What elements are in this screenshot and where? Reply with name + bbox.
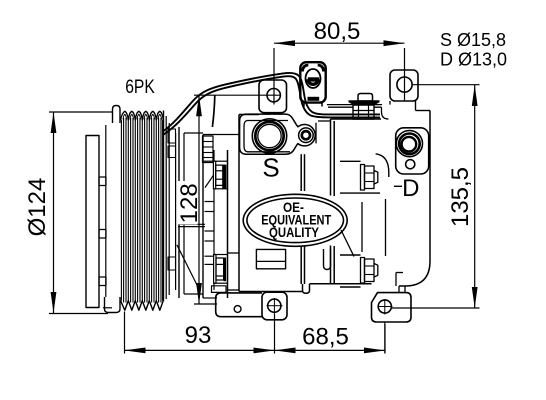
hex bolt Q3 (rear upper)	[361, 165, 378, 191]
pulley drum bottom-left tab	[105, 297, 121, 313]
S port circles	[252, 119, 286, 153]
top-right mounting ear	[390, 70, 418, 101]
main block left edge	[238, 115, 240, 292]
dimension 80,5 top	[274, 18, 405, 105]
D port plate	[396, 128, 429, 174]
lower boss lines	[228, 252, 240, 254]
bracket lower edge double line	[327, 104, 382, 106]
rib ladder top	[203, 136, 214, 163]
svg-text:93: 93	[185, 322, 212, 349]
armature tab 3	[99, 277, 106, 286]
hex bolt Q1 (front upper)	[213, 161, 227, 189]
bottom-left mounting ear	[262, 292, 287, 320]
svg-text:S: S	[262, 153, 279, 183]
top edge right of lug	[318, 120, 331, 122]
S port boss outline	[240, 114, 316, 154]
rear top edge	[331, 118, 382, 120]
pulley rib bottom teeth	[121, 301, 164, 311]
flange tab lower	[168, 257, 176, 270]
front housing face lines	[178, 127, 180, 298]
wire harness	[164, 73, 381, 135]
body top edge left of ear	[239, 114, 259, 116]
label plate	[256, 249, 285, 268]
svg-text:135,5: 135,5	[447, 167, 474, 227]
dimension 68,5 bottom center	[275, 315, 386, 354]
pulley armature plate	[86, 136, 99, 308]
svg-text:D: D	[402, 175, 419, 202]
relief valve	[358, 94, 373, 102]
svg-text:6PK: 6PK	[125, 77, 155, 98]
svg-text:QUALITY: QUALITY	[269, 225, 319, 240]
badge OE-EQUIVALENT QUALITY	[243, 194, 347, 246]
hex bolt Q2 (front lower)	[214, 255, 228, 284]
pulley drum left cap	[113, 106, 121, 124]
svg-text:S Ø15,8: S Ø15,8	[440, 30, 506, 50]
S port inner plate	[244, 121, 290, 152]
electrical connector	[300, 62, 325, 106]
flange tab upper 1	[168, 129, 176, 143]
body vertical line B pair	[330, 119, 332, 196]
pulley back flange	[165, 116, 167, 299]
dimension 128 center	[176, 95, 281, 304]
body front edge line	[227, 150, 229, 298]
S lug circles	[299, 128, 314, 143]
svg-text:D Ø13,0: D Ø13,0	[440, 50, 507, 70]
svg-text:Ø124: Ø124	[24, 178, 51, 237]
hex bolt Q4 (rear lower)	[361, 258, 378, 284]
pulley rib vertical lines	[121, 118, 162, 303]
svg-text:128: 128	[176, 183, 203, 223]
pulley drum right edge	[163, 111, 165, 302]
dimension 93 bottom left	[125, 312, 275, 354]
top-left mounting ear	[259, 80, 287, 113]
D label with leader	[394, 185, 402, 187]
D port circles	[396, 131, 422, 157]
hub face line	[105, 125, 107, 297]
armature tab 2	[99, 230, 106, 239]
mid lug horizontal band	[178, 223, 205, 225]
armature tab 1	[99, 177, 106, 186]
bottom front bracket bar	[216, 293, 262, 317]
pulley rib top profile	[121, 111, 164, 120]
rib ladder middle	[203, 150, 214, 290]
svg-text:68,5: 68,5	[302, 324, 349, 351]
body vertical line A	[300, 154, 302, 191]
front block edge	[202, 135, 204, 299]
dimension Ø124 left	[24, 112, 113, 314]
bottom-right mounting ear	[372, 293, 412, 322]
dimension 135,5 right	[392, 85, 480, 308]
body bottom contour	[239, 291, 303, 293]
right edge and bottom corner	[415, 101, 417, 111]
svg-text:80,5: 80,5	[314, 18, 361, 45]
flange tab upper 2	[168, 146, 176, 158]
housing foot	[212, 286, 227, 293]
head contour lines	[376, 154, 389, 177]
fork detail	[324, 249, 331, 270]
